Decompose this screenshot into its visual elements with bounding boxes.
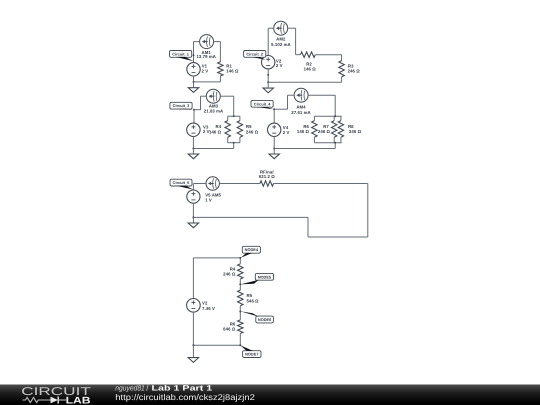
svg-text:1 V: 1 V bbox=[205, 197, 212, 202]
svg-text:13.79 mA: 13.79 mA bbox=[196, 54, 216, 59]
svg-text:621.2 Ω: 621.2 Ω bbox=[259, 174, 275, 179]
svg-text:R5: R5 bbox=[246, 124, 252, 129]
svg-text:5.102 mA: 5.102 mA bbox=[271, 42, 291, 47]
svg-text:846 Ω: 846 Ω bbox=[223, 327, 236, 332]
svg-text:21.83 mA: 21.83 mA bbox=[204, 108, 224, 113]
svg-text:546 Ω: 546 Ω bbox=[247, 298, 260, 303]
svg-text:R6: R6 bbox=[303, 124, 309, 129]
svg-text:2 V: 2 V bbox=[202, 69, 209, 74]
svg-text:LAB: LAB bbox=[66, 395, 91, 405]
svg-text:27.61 mA: 27.61 mA bbox=[291, 110, 311, 115]
svg-text:NODE7: NODE7 bbox=[245, 352, 258, 357]
svg-text:346 Ω: 346 Ω bbox=[349, 129, 362, 134]
svg-text:146 Ω: 146 Ω bbox=[304, 66, 317, 71]
svg-text:R4: R4 bbox=[216, 124, 222, 129]
svg-text:246 Ω: 246 Ω bbox=[223, 271, 236, 276]
svg-text:146 Ω: 146 Ω bbox=[209, 129, 222, 134]
svg-text:246 Ω: 246 Ω bbox=[348, 68, 361, 73]
svg-text:Circuit_2: Circuit_2 bbox=[246, 51, 263, 56]
svg-text:2 V: 2 V bbox=[276, 63, 283, 68]
svg-text:NODE6: NODE6 bbox=[258, 317, 272, 322]
svg-text:Circuit_1: Circuit_1 bbox=[172, 51, 189, 56]
svg-text:146 Ω: 146 Ω bbox=[297, 129, 310, 134]
svg-text:2 V: 2 V bbox=[283, 130, 290, 135]
svg-text:7.46 V: 7.46 V bbox=[202, 306, 215, 311]
svg-text:AM2: AM2 bbox=[276, 36, 286, 41]
svg-text:Circuit_4: Circuit_4 bbox=[254, 101, 271, 106]
svg-text:R7: R7 bbox=[323, 124, 329, 129]
svg-text:NODE4: NODE4 bbox=[245, 247, 259, 252]
svg-text:NODE5: NODE5 bbox=[258, 274, 272, 279]
svg-text:Circuit_3: Circuit_3 bbox=[173, 103, 190, 108]
svg-text:246 Ω: 246 Ω bbox=[318, 129, 331, 134]
svg-text:R8: R8 bbox=[348, 124, 354, 129]
svg-text:http://circuitlab.com/cksz2j8a: http://circuitlab.com/cksz2j8ajzjn2 bbox=[115, 392, 255, 402]
svg-text:246 Ω: 246 Ω bbox=[246, 129, 259, 134]
svg-text:Circuit_5: Circuit_5 bbox=[173, 180, 190, 185]
svg-text:146 Ω: 146 Ω bbox=[226, 69, 239, 74]
